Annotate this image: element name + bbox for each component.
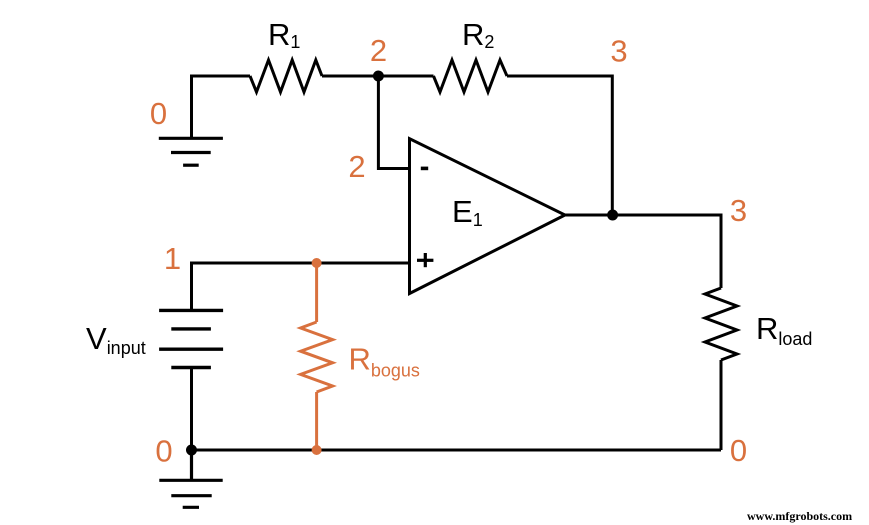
wire: bottom rail node 0 — [192, 449, 722, 452]
wire: non-inverting input from node 1 — [192, 263, 410, 311]
junction node 3 (output) — [607, 210, 618, 221]
wire: R1 to R2 through node 2 — [322, 75, 434, 78]
svg-text:0: 0 — [730, 433, 747, 468]
svg-text:www.mfgrobots.com: www.mfgrobots.com — [747, 509, 852, 523]
op-amp U1 (E1) triangle — [410, 139, 566, 294]
resistor Rbogus (orange) top lead — [315, 263, 318, 322]
wire: R2 to top-right corner, down to output node — [507, 76, 612, 215]
wire: top-left ground riser — [190, 76, 193, 139]
op-amp inverting pin minus sign — [421, 167, 428, 171]
junction node 2 — [373, 71, 384, 82]
svg-text:2: 2 — [370, 33, 387, 68]
resistor R1 — [250, 60, 322, 92]
wire: top horizontal to R1 — [190, 75, 250, 78]
svg-text:1: 1 — [164, 241, 181, 276]
op-amp non-inverting pin plus sign — [417, 253, 433, 267]
svg-text:2: 2 — [348, 149, 365, 184]
wire: node 2 branch to inverting input — [378, 76, 409, 169]
svg-text:3: 3 — [730, 193, 747, 228]
resistor Rbogus bottom lead — [315, 392, 318, 450]
resistor Rload — [705, 288, 737, 360]
wire: Rload bottom lead — [720, 360, 723, 450]
svg-text:0: 0 — [150, 96, 167, 131]
resistor R2 — [434, 60, 508, 92]
svg-text:0: 0 — [155, 434, 172, 469]
ground GND1 (top left, node 0) — [159, 138, 223, 165]
ground GND2 (bottom left) — [159, 450, 222, 507]
battery Vinput plates — [159, 310, 223, 367]
Rbogus top node dot — [312, 258, 322, 268]
wire: op-amp output to node 3 corner — [565, 215, 721, 288]
wire: battery bottom lead to node 0 — [190, 368, 193, 451]
resistor Rbogus zigzag — [301, 322, 333, 392]
svg-text:3: 3 — [610, 34, 627, 69]
junction node 0 (left) — [186, 445, 197, 456]
Rbogus bottom node dot — [312, 445, 322, 455]
